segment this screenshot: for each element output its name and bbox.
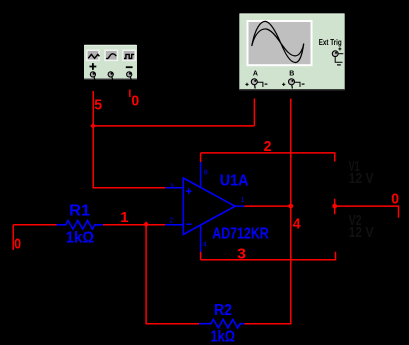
wire XFG1 - terminal stub to net 0 [129, 90, 131, 98]
op-amp U1 [165, 162, 269, 252]
svg-text:2: 2 [169, 218, 173, 225]
U1 minus mark [186, 223, 192, 225]
XFG1 sine-wave button [104, 50, 118, 62]
svg-text:4: 4 [203, 241, 207, 248]
svg-text:R1: R1 [69, 203, 90, 220]
XFG1 square-wave button [122, 50, 136, 62]
XSC1 channel B polarity marks [282, 83, 285, 86]
svg-text:1kΩ: 1kΩ [66, 230, 95, 247]
U1 inverting input stub pin 2 [165, 224, 183, 226]
wire V+ top rail node 2 to battery V1 [201, 153, 335, 162]
svg-text:Ext Trig: Ext Trig [319, 38, 342, 47]
svg-text:5: 5 [94, 97, 102, 114]
U1 non-inverting input stub pin 3 [165, 187, 183, 189]
wire V- bottom rail node 3 to battery V2 [201, 252, 336, 260]
wire node 5 down and right to op-amp +input [93, 126, 165, 188]
svg-text:B: B [289, 71, 294, 78]
svg-text:A: A [253, 71, 258, 78]
wire scope channel A vertical drop [253, 99, 255, 126]
U1 plus mark [186, 188, 192, 194]
svg-text:1kΩ: 1kΩ [211, 328, 236, 345]
XSC1 Ext Trig polarity marks [338, 47, 341, 50]
XSC1 waveform trace small [252, 29, 304, 56]
battery V1 labels (near-black as in source) [349, 158, 374, 187]
svg-text:4: 4 [293, 216, 301, 233]
XFG1 body [84, 45, 137, 79]
wire op-amp output to node 4 [244, 205, 290, 207]
battery V2 labels (near-black as in source) [349, 212, 374, 241]
XFG1 + terminal [90, 72, 95, 77]
junction battery midpoint [332, 204, 337, 209]
junction node 1 [143, 221, 149, 227]
U1 V+ rail pin 8 [200, 162, 202, 188]
wire net 0 stub to R1 left [13, 225, 56, 250]
svg-text:3: 3 [169, 183, 173, 190]
XSC1 Ext Trig terminal [332, 51, 338, 57]
junction node 5 [90, 123, 95, 129]
XSC1 channel A terminal [251, 79, 257, 89]
junction node 4 [288, 204, 293, 209]
XFG1 minus mark [126, 66, 133, 68]
svg-text:0: 0 [14, 236, 21, 253]
XFG1 common terminal [108, 72, 113, 77]
svg-text:8: 8 [204, 169, 208, 176]
XFG1 triangle-wave button [86, 50, 100, 62]
XSC1 waveform trace large [252, 21, 304, 62]
svg-text:2: 2 [264, 138, 272, 155]
svg-text:0: 0 [131, 92, 139, 109]
wire battery midpoint to ground net 0 [335, 199, 399, 218]
XSC1 channel B terminal [289, 79, 295, 89]
function generator XFG1 [84, 45, 137, 80]
U1 V- rail pin 4 [200, 225, 202, 252]
svg-text:1: 1 [241, 197, 245, 204]
svg-text:0: 0 [391, 190, 399, 207]
oscilloscope XSC1 [239, 14, 344, 91]
resistor R1 [57, 203, 104, 247]
svg-text:AD712KR: AD712KR [212, 225, 269, 242]
svg-text:12 V: 12 V [349, 170, 374, 187]
svg-text:12 V: 12 V [349, 224, 374, 241]
svg-text:1: 1 [120, 209, 128, 226]
XFG1 - terminal [127, 72, 132, 77]
XFG1 plus mark [90, 63, 97, 70]
svg-text:U1A: U1A [220, 172, 249, 189]
svg-text:3: 3 [237, 245, 246, 262]
svg-text:R2: R2 [214, 302, 232, 319]
U1 triangle [183, 178, 235, 235]
wire R1 right to op-amp -input via node 1 [103, 224, 165, 226]
wire XFG1 + terminal down to node 5 junction [92, 91, 94, 126]
wire node 1 down and right to R2 left [146, 225, 199, 324]
XSC1 screen [247, 20, 313, 66]
resistor R2 [199, 302, 245, 345]
XFG1 terminal pins [94, 76, 131, 80]
wire R2 right up to node 4 and scope channel B [245, 99, 291, 324]
XSC1 channel A polarity marks [245, 83, 248, 86]
XSC1 body [239, 14, 344, 91]
wire node 5 junction to scope channel A [93, 125, 254, 127]
U1 output stub pin 1 [235, 205, 244, 207]
